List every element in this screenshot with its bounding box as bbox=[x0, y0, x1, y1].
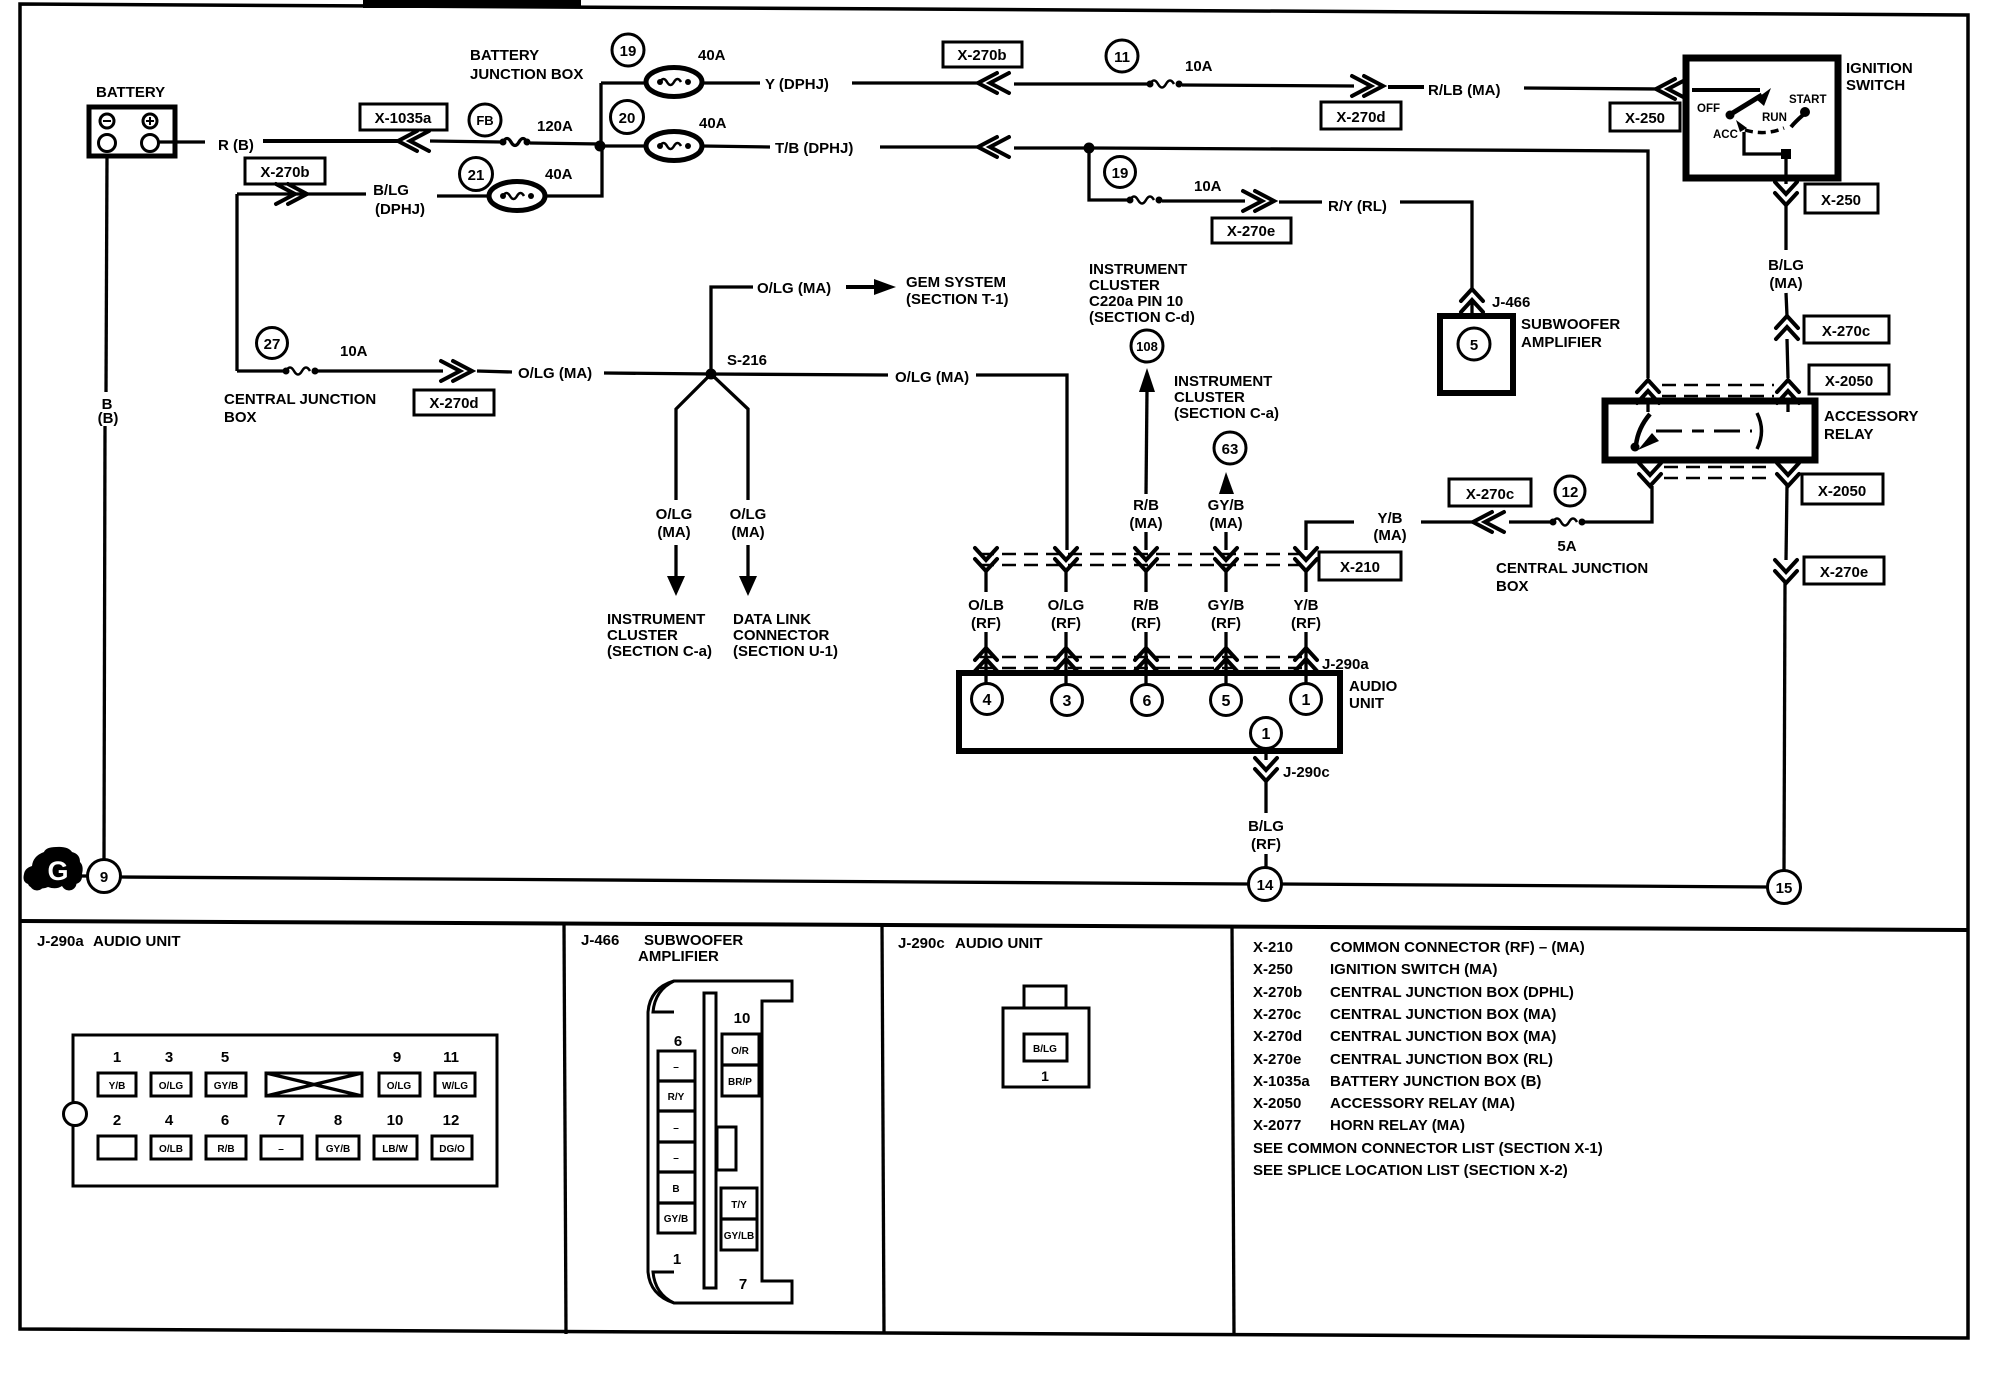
svg-text:27: 27 bbox=[264, 336, 281, 353]
node R/B (MA) bbox=[1129, 497, 1162, 532]
svg-text:IGNITION SWITCH (MA): IGNITION SWITCH (MA) bbox=[1330, 961, 1497, 978]
svg-text:(B): (B) bbox=[98, 410, 119, 427]
svg-text:X-2077: X-2077 bbox=[1253, 1117, 1301, 1134]
connector box X-2050 bottom bbox=[1802, 474, 1883, 504]
svg-text:3: 3 bbox=[1063, 693, 1072, 710]
ground node 9 bbox=[88, 860, 121, 893]
panel title J-290a AUDIO UNIT bbox=[37, 933, 181, 950]
svg-text:OFF: OFF bbox=[1697, 103, 1720, 115]
svg-text:GY/B: GY/B bbox=[1208, 597, 1245, 614]
wire R/Y to subwoofer amp bbox=[1400, 202, 1472, 290]
svg-text:12: 12 bbox=[443, 1112, 460, 1129]
svg-text:SEE SPLICE LOCATION LIST (SECT: SEE SPLICE LOCATION LIST (SECTION X-2) bbox=[1253, 1162, 1568, 1179]
svg-text:AUDIO: AUDIO bbox=[1349, 678, 1398, 695]
connector box X-270d left bbox=[414, 390, 494, 415]
connector chevron X-270b << on T/B wire bbox=[978, 137, 1009, 157]
svg-text:7: 7 bbox=[277, 1112, 285, 1129]
wire to X-270e arrow bbox=[1162, 199, 1245, 202]
svg-text:B/LG: B/LG bbox=[373, 182, 409, 199]
svg-text:O/LG: O/LG bbox=[159, 1081, 184, 1092]
svg-text:BATTERY: BATTERY bbox=[96, 84, 165, 101]
GEM system label bbox=[906, 274, 1009, 308]
svg-text:T/Y: T/Y bbox=[731, 1200, 747, 1211]
wire B/LG bbox=[237, 192, 366, 195]
wire to fuse 12 bbox=[1509, 520, 1553, 523]
wire J-290c to label bbox=[1264, 781, 1267, 813]
connector box X-2050 top bbox=[1809, 365, 1889, 394]
svg-text:START: START bbox=[1789, 94, 1826, 106]
svg-text:INSTRUMENT: INSTRUMENT bbox=[607, 611, 705, 628]
legend X-2050 bbox=[1253, 1095, 1515, 1112]
svg-text:SUBWOOFER: SUBWOOFER bbox=[644, 932, 743, 949]
svg-text:AMPLIFIER: AMPLIFIER bbox=[638, 948, 719, 965]
connector box X-250 below bbox=[1805, 184, 1878, 213]
pin 9 value O/LG bbox=[379, 1073, 420, 1096]
svg-text:2: 2 bbox=[113, 1112, 121, 1129]
svg-text:10A: 10A bbox=[340, 343, 368, 360]
connector chevron >> X-270e bbox=[1243, 191, 1274, 211]
svg-text:(RF): (RF) bbox=[1131, 615, 1161, 632]
circle FB bbox=[469, 104, 501, 136]
svg-text:1: 1 bbox=[113, 1049, 121, 1066]
svg-text:X-1035a: X-1035a bbox=[375, 110, 432, 127]
battery junction box label bbox=[470, 47, 583, 83]
wire T/B (DPHJ) bbox=[702, 146, 770, 147]
svg-text:Y/B: Y/B bbox=[109, 1081, 126, 1092]
node O/LG (RF) bbox=[1048, 597, 1085, 632]
node O/LG (MA) left branch bbox=[656, 506, 693, 541]
svg-text:8: 8 bbox=[334, 1112, 342, 1129]
svg-text:1: 1 bbox=[673, 1251, 681, 1268]
svg-text:1: 1 bbox=[1302, 692, 1311, 709]
svg-text:6: 6 bbox=[1143, 693, 1152, 710]
svg-text:(RF): (RF) bbox=[1251, 836, 1281, 853]
ground bus wire left bbox=[120, 877, 1249, 884]
svg-text:GEM SYSTEM: GEM SYSTEM bbox=[906, 274, 1006, 291]
battery bbox=[89, 107, 175, 156]
svg-text:O/LG: O/LG bbox=[656, 506, 693, 523]
svg-text:(MA): (MA) bbox=[731, 524, 764, 541]
connector chevrons J-290a row bbox=[975, 648, 1317, 671]
connector J-466 outline bbox=[648, 981, 792, 1303]
arrow to GEM system bbox=[846, 279, 896, 295]
svg-text:6: 6 bbox=[221, 1112, 229, 1129]
wire fuse 12 to relay bbox=[1585, 486, 1652, 522]
wire battery to R (B) bbox=[159, 140, 205, 143]
wire to R/Y label bbox=[1279, 200, 1322, 203]
svg-text:IGNITION: IGNITION bbox=[1846, 60, 1913, 77]
svg-text:O/LG (MA): O/LG (MA) bbox=[757, 280, 831, 297]
node B/LG (DPHJ) bbox=[373, 182, 425, 218]
junction node T/B bbox=[1084, 143, 1095, 154]
legend X-1035a bbox=[1253, 1073, 1541, 1090]
svg-text:BOX: BOX bbox=[1496, 578, 1529, 595]
svg-text:Y (DPHJ): Y (DPHJ) bbox=[765, 76, 829, 93]
fuse 27 10A bbox=[237, 343, 368, 375]
panel title J-466 SUBWOOFER AMPLIFIER bbox=[581, 932, 743, 965]
svg-text:DATA LINK: DATA LINK bbox=[733, 611, 811, 628]
fuse 19 40A bbox=[601, 47, 726, 97]
svg-text:4: 4 bbox=[983, 692, 992, 709]
fuse 19 10A symbol bbox=[1127, 178, 1222, 204]
pin 7 value dash bbox=[261, 1136, 302, 1159]
svg-text:B/LG: B/LG bbox=[1248, 818, 1284, 835]
svg-text:63: 63 bbox=[1222, 441, 1239, 458]
svg-text:5: 5 bbox=[1222, 693, 1231, 710]
svg-text:HORN RELAY (MA): HORN RELAY (MA) bbox=[1330, 1117, 1465, 1134]
connector row X-2050 bottom dashed bbox=[1664, 467, 1774, 478]
wire GY/B segment bbox=[1224, 571, 1227, 592]
wire fuse to junction bbox=[530, 143, 601, 144]
svg-text:O/LG: O/LG bbox=[387, 1081, 412, 1092]
connector box X-210 bbox=[1319, 552, 1401, 580]
wire S-216 left branch bbox=[676, 374, 711, 500]
arrow up to node 63 bbox=[1219, 472, 1234, 494]
circle 19 lower (fuse number) bbox=[1105, 157, 1136, 188]
accessory relay bbox=[1605, 401, 1815, 460]
connector chevron X-270b << on Y wire bbox=[978, 73, 1009, 93]
pin 2 value empty bbox=[98, 1136, 136, 1159]
svg-text:11: 11 bbox=[443, 1049, 459, 1066]
svg-text:R/LB (MA): R/LB (MA) bbox=[1428, 82, 1500, 99]
legend X-250 bbox=[1253, 961, 1497, 978]
svg-text:FB: FB bbox=[476, 113, 493, 128]
svg-text:X-270e: X-270e bbox=[1227, 223, 1275, 240]
node R/B (RF) bbox=[1131, 597, 1161, 632]
svg-text:J-466: J-466 bbox=[1492, 294, 1530, 311]
legend X-270e bbox=[1253, 1051, 1553, 1068]
svg-text:(DPHJ): (DPHJ) bbox=[375, 201, 425, 218]
svg-text:RUN: RUN bbox=[1762, 112, 1787, 124]
pin 1 value Y/B bbox=[98, 1073, 136, 1096]
svg-text:CENTRAL JUNCTION: CENTRAL JUNCTION bbox=[1496, 560, 1648, 577]
svg-text:T/B (DPHJ): T/B (DPHJ) bbox=[775, 140, 853, 157]
wire Y to X-270b bbox=[852, 81, 978, 84]
pin 10 value LB/W bbox=[374, 1136, 417, 1159]
wire O/LG to splice S-216 bbox=[604, 373, 713, 374]
svg-text:10: 10 bbox=[734, 1010, 751, 1027]
svg-text:S-216: S-216 bbox=[727, 352, 767, 369]
svg-text:INSTRUMENT: INSTRUMENT bbox=[1174, 373, 1272, 390]
svg-text:X-270b: X-270b bbox=[1253, 984, 1302, 1001]
svg-text:CONNECTOR: CONNECTOR bbox=[733, 627, 830, 644]
svg-text:21: 21 bbox=[468, 167, 485, 184]
svg-text:X-210: X-210 bbox=[1253, 939, 1293, 956]
connector chevron X-1035a << bbox=[398, 131, 429, 151]
svg-text:CENTRAL JUNCTION BOX (MA): CENTRAL JUNCTION BOX (MA) bbox=[1330, 1006, 1556, 1023]
wire Y (DPHJ) bbox=[702, 81, 760, 84]
svg-text:6: 6 bbox=[674, 1033, 682, 1050]
svg-text:CENTRAL JUNCTION BOX (RL): CENTRAL JUNCTION BOX (RL) bbox=[1330, 1051, 1553, 1068]
svg-text:11: 11 bbox=[1114, 49, 1130, 66]
svg-text:B/LG: B/LG bbox=[1768, 257, 1804, 274]
svg-text:X-270d: X-270d bbox=[1336, 109, 1385, 126]
svg-text:AUDIO UNIT: AUDIO UNIT bbox=[955, 935, 1043, 952]
svg-text:X-2050: X-2050 bbox=[1825, 373, 1873, 390]
svg-text:X-250: X-250 bbox=[1821, 192, 1861, 209]
svg-text:X-270c: X-270c bbox=[1253, 1006, 1301, 1023]
connector chevron X-2050 down-left bbox=[1639, 463, 1661, 486]
svg-text:W/LG: W/LG bbox=[442, 1081, 468, 1092]
svg-text:R (B): R (B) bbox=[218, 137, 254, 154]
wire R/B segment bbox=[1144, 571, 1147, 592]
panel separator 2 bbox=[882, 924, 884, 1334]
wire O/LG to audio unit bundle bbox=[976, 375, 1067, 550]
connector chevron X-270e down bbox=[1775, 560, 1797, 583]
svg-text:J-466: J-466 bbox=[581, 932, 619, 949]
connector chevron X-2050 up-right bbox=[1777, 380, 1799, 403]
svg-text:INSTRUMENT: INSTRUMENT bbox=[1089, 261, 1187, 278]
junction node bbox=[595, 141, 606, 152]
svg-text:3: 3 bbox=[165, 1049, 173, 1066]
accessory relay label bbox=[1824, 408, 1918, 443]
svg-text:40A: 40A bbox=[699, 115, 727, 132]
node B (B) bbox=[98, 396, 119, 427]
svg-text:R/B: R/B bbox=[217, 1144, 234, 1155]
connector chevron >> X-270d bbox=[441, 361, 472, 381]
svg-text:–: – bbox=[673, 1062, 679, 1073]
wire fuse 27 to arrow bbox=[318, 369, 443, 372]
svg-text:(MA): (MA) bbox=[1769, 275, 1802, 292]
wire into subwoofer amp bbox=[1470, 303, 1473, 316]
svg-text:R/B: R/B bbox=[1133, 497, 1159, 514]
wire to circle 14 bbox=[1264, 854, 1267, 868]
arrow to instrument cluster bbox=[667, 545, 685, 596]
svg-text:CENTRAL JUNCTION: CENTRAL JUNCTION bbox=[224, 391, 376, 408]
svg-text:1: 1 bbox=[1041, 1068, 1049, 1084]
connector box X-270e left bbox=[1212, 218, 1291, 243]
svg-text:5A: 5A bbox=[1557, 538, 1576, 555]
svg-text:(SECTION C-d): (SECTION C-d) bbox=[1089, 309, 1195, 326]
panel separator 1 bbox=[564, 923, 566, 1334]
circle 20 (fuse number) bbox=[611, 101, 644, 134]
connector row X-2050 top dashed bbox=[1662, 385, 1774, 396]
svg-text:O/LG: O/LG bbox=[1048, 597, 1085, 614]
svg-text:14: 14 bbox=[1257, 877, 1274, 894]
wire T/B to junction bbox=[1014, 146, 1090, 149]
svg-text:GY/B: GY/B bbox=[664, 1214, 688, 1225]
connector chevron >> on R/LB wire bbox=[1352, 76, 1383, 96]
connector chevron << before ignition switch bbox=[1656, 79, 1687, 99]
svg-text:G: G bbox=[47, 856, 68, 886]
svg-text:ACCESSORY RELAY (MA): ACCESSORY RELAY (MA) bbox=[1330, 1095, 1515, 1112]
svg-text:BOX: BOX bbox=[224, 409, 257, 426]
wire B/LG down bbox=[1786, 293, 1787, 316]
svg-text:R/Y (RL): R/Y (RL) bbox=[1328, 198, 1387, 215]
pin 6 value R/B bbox=[206, 1136, 246, 1159]
subwoofer amplifier label bbox=[1521, 316, 1620, 351]
fuse 12 5A bbox=[1550, 519, 1586, 556]
svg-text:12: 12 bbox=[1562, 484, 1579, 501]
svg-text:15: 15 bbox=[1776, 880, 1793, 897]
connector box X-270c left bbox=[1449, 479, 1531, 506]
node B/LG (MA) right bbox=[1768, 257, 1804, 292]
node Y/B (RF) bbox=[1291, 597, 1321, 632]
wire X-270b to central junction box bbox=[235, 194, 238, 371]
wire battery B down bbox=[106, 156, 107, 392]
connector box X-270d right bbox=[1321, 102, 1401, 129]
subwoofer amplifier bbox=[1440, 316, 1513, 393]
connector box X-270b top bbox=[943, 42, 1022, 67]
ground node 15 bbox=[1768, 871, 1801, 904]
svg-text:CLUSTER: CLUSTER bbox=[1089, 277, 1160, 294]
svg-text:19: 19 bbox=[1112, 165, 1129, 182]
svg-text:X-270e: X-270e bbox=[1820, 564, 1868, 581]
svg-text:COMMON CONNECTOR (RF) – (MA): COMMON CONNECTOR (RF) – (MA) bbox=[1330, 939, 1585, 956]
svg-text:X-270e: X-270e bbox=[1253, 1051, 1301, 1068]
svg-text:R/B: R/B bbox=[1133, 597, 1159, 614]
svg-text:BATTERY JUNCTION BOX (B): BATTERY JUNCTION BOX (B) bbox=[1330, 1073, 1541, 1090]
svg-text:B/LG: B/LG bbox=[1033, 1044, 1057, 1055]
panel title J-290c AUDIO UNIT bbox=[898, 935, 1043, 952]
svg-text:X-270b: X-270b bbox=[260, 164, 309, 181]
svg-text:O/LB: O/LB bbox=[159, 1144, 183, 1155]
node O/LB (RF) bbox=[968, 597, 1004, 632]
wire fuse 11 to arrow bbox=[1182, 85, 1354, 86]
legend X-210 bbox=[1253, 939, 1585, 956]
wire T/B to X-270b bbox=[880, 145, 978, 148]
wire fuse 21 up to junction bbox=[545, 148, 602, 196]
circle 21 (fuse number) bbox=[460, 158, 493, 191]
instrument cluster label left bbox=[607, 611, 712, 660]
connector box X-1035a bbox=[360, 104, 447, 130]
connector chevron X-250 down bbox=[1775, 182, 1797, 205]
svg-text:X-210: X-210 bbox=[1340, 559, 1380, 576]
wire S-216 right branch bbox=[711, 374, 748, 500]
connector chevron X-2050 up-left bbox=[1637, 380, 1659, 403]
crossed-out slot bbox=[266, 1073, 362, 1096]
connector box X-270b left bbox=[245, 158, 325, 184]
svg-text:J-290a: J-290a bbox=[37, 933, 84, 950]
J-466 right lower pins T/Y GY/LB bbox=[721, 1188, 757, 1250]
svg-text:1: 1 bbox=[1262, 726, 1271, 743]
arrow up to node 108 bbox=[1139, 368, 1155, 494]
wire Y/B to chevron bbox=[1421, 520, 1475, 523]
arrow to data link connector bbox=[739, 545, 757, 596]
connector box X-270e right bbox=[1804, 557, 1884, 584]
svg-text:SWITCH: SWITCH bbox=[1846, 77, 1905, 94]
connector chevron J-466 up bbox=[1461, 289, 1483, 312]
wire Y to fuse 11 bbox=[1014, 82, 1148, 85]
node B/LG (RF) bbox=[1248, 818, 1284, 853]
wire down to node 15 bbox=[1784, 583, 1785, 871]
svg-text:Y/B: Y/B bbox=[1377, 510, 1402, 527]
svg-text:9: 9 bbox=[393, 1049, 401, 1066]
J-466 left pin column bbox=[658, 1051, 695, 1233]
svg-text:RELAY: RELAY bbox=[1824, 426, 1873, 443]
connector box X-270c right bbox=[1804, 316, 1889, 343]
connector chevron J-290c down bbox=[1255, 758, 1277, 781]
svg-text:108: 108 bbox=[1136, 339, 1158, 354]
panel divider top of connector section bbox=[20, 921, 1968, 930]
svg-text:C220a PIN 10: C220a PIN 10 bbox=[1089, 293, 1183, 310]
svg-text:X-1035a: X-1035a bbox=[1253, 1073, 1310, 1090]
panel separator 3 bbox=[1232, 925, 1234, 1336]
svg-text:X-2050: X-2050 bbox=[1818, 483, 1866, 500]
wire relay right down bbox=[1786, 486, 1787, 560]
svg-text:10: 10 bbox=[387, 1112, 404, 1129]
svg-text:O/LG (MA): O/LG (MA) bbox=[895, 369, 969, 386]
svg-text:19: 19 bbox=[620, 43, 637, 60]
wire S-216 right bbox=[711, 374, 888, 375]
svg-text:(SECTION C-a): (SECTION C-a) bbox=[607, 643, 712, 660]
wire to relay bbox=[1787, 339, 1788, 378]
audio unit label bbox=[1349, 678, 1398, 712]
svg-text:B: B bbox=[672, 1184, 679, 1195]
wire R/LB to ignition bbox=[1524, 88, 1659, 89]
ground symbol G car bbox=[24, 847, 83, 891]
J-466 right upper pins O/R BR/P bbox=[722, 1034, 759, 1096]
svg-text:40A: 40A bbox=[698, 47, 726, 64]
ground node 14 bbox=[1249, 868, 1282, 901]
wire O/LG segment bbox=[1064, 571, 1067, 592]
fuse 120A bbox=[500, 118, 574, 146]
node O/LG (MA) right branch bbox=[730, 506, 767, 541]
wire G to node 9 bbox=[82, 874, 89, 877]
svg-text:(RF): (RF) bbox=[1051, 615, 1081, 632]
wires into audio unit bbox=[986, 632, 1306, 684]
node Y/B (MA) bbox=[1373, 510, 1406, 544]
svg-text:CENTRAL JUNCTION BOX (DPHL): CENTRAL JUNCTION BOX (DPHL) bbox=[1330, 984, 1574, 1001]
svg-text:GY/B: GY/B bbox=[214, 1081, 238, 1092]
fuse 21 40A bbox=[489, 166, 573, 211]
svg-text:(MA): (MA) bbox=[1129, 515, 1162, 532]
audio unit bbox=[959, 673, 1340, 751]
svg-text:X-270c: X-270c bbox=[1466, 486, 1514, 503]
svg-text:X-270c: X-270c bbox=[1822, 323, 1870, 340]
svg-text:10A: 10A bbox=[1185, 58, 1213, 75]
svg-text:J-290c: J-290c bbox=[898, 935, 945, 952]
ignition switch label bbox=[1846, 60, 1913, 94]
svg-text:7: 7 bbox=[739, 1276, 747, 1293]
svg-text:R/Y: R/Y bbox=[668, 1092, 685, 1103]
wire Y/B segment bbox=[1304, 571, 1307, 592]
wire R/B to X-210 row bbox=[1144, 532, 1147, 550]
svg-text:LB/W: LB/W bbox=[382, 1144, 408, 1155]
connector row J-290a dashed bbox=[980, 657, 1310, 668]
svg-text:120A: 120A bbox=[537, 118, 573, 135]
wire audio unit down bbox=[1264, 751, 1267, 760]
instrument cluster C220a label bbox=[1089, 261, 1195, 326]
svg-text:(SECTION U-1): (SECTION U-1) bbox=[733, 643, 838, 660]
pin 3 value O/LG bbox=[151, 1073, 191, 1096]
svg-text:CLUSTER: CLUSTER bbox=[1174, 389, 1245, 406]
svg-text:GY/B: GY/B bbox=[1208, 497, 1245, 514]
connector J-290a pinout bbox=[64, 1035, 498, 1186]
central junction box label right bbox=[1496, 560, 1648, 595]
connector J-290c pinout bbox=[1003, 986, 1089, 1087]
wire O/LB segment bbox=[984, 571, 987, 592]
wire to fuse 120A bbox=[430, 141, 502, 142]
svg-text:–: – bbox=[673, 1123, 679, 1134]
svg-text:GY/B: GY/B bbox=[326, 1144, 350, 1155]
svg-text:ACC: ACC bbox=[1713, 129, 1738, 141]
wire to O/LG label bbox=[477, 371, 512, 372]
svg-text:(RF): (RF) bbox=[971, 615, 1001, 632]
svg-text:9: 9 bbox=[100, 869, 108, 886]
svg-text:X-250: X-250 bbox=[1253, 961, 1293, 978]
svg-text:4: 4 bbox=[165, 1112, 174, 1129]
svg-text:20: 20 bbox=[619, 110, 636, 127]
pin 8 value GY/B bbox=[317, 1136, 359, 1159]
pin 12 value DG/O bbox=[432, 1136, 472, 1159]
svg-text:X-2050: X-2050 bbox=[1253, 1095, 1301, 1112]
svg-text:ACCESSORY: ACCESSORY bbox=[1824, 408, 1918, 425]
svg-text:X-270d: X-270d bbox=[429, 395, 478, 412]
legend X-270b bbox=[1253, 984, 1574, 1001]
wire T/B to accessory relay corner bbox=[1092, 148, 1648, 378]
fuse 20 40A bbox=[601, 115, 727, 161]
